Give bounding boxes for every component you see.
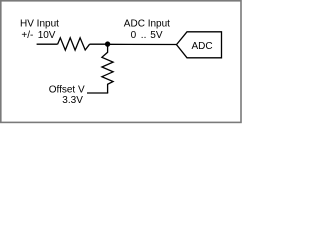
label: 0 .. 5V [131,30,163,41]
svg-text:..: .. [141,30,147,41]
resistor R1 (series input resistor) [58,38,90,50]
ADC connector tag (pentagon pointing left) [177,32,222,58]
node: junction of R1, R2 and ADC wire [105,41,110,46]
wire: resistor R2 bottom lead to Offset V source [87,92,108,94]
svg-text:ADC: ADC [192,41,213,52]
resistor R2 (offset resistor, vertical) [102,44,113,93]
label: +/- 10V [21,30,55,41]
svg-text:HV Input: HV Input [20,19,59,30]
wire: HV input lead to resistor R1 [37,43,58,45]
svg-text:3.3V: 3.3V [62,95,83,106]
wire: junction node to ADC connector [108,43,177,45]
svg-text:Offset V: Offset V [49,85,85,96]
svg-text:+/-: +/- [21,30,33,41]
wire: resistor R1 to junction node [90,43,108,45]
svg-text:0: 0 [131,30,137,41]
svg-text:ADC Input: ADC Input [124,19,170,30]
svg-text:5V: 5V [150,30,163,41]
svg-text:10V: 10V [38,30,56,41]
